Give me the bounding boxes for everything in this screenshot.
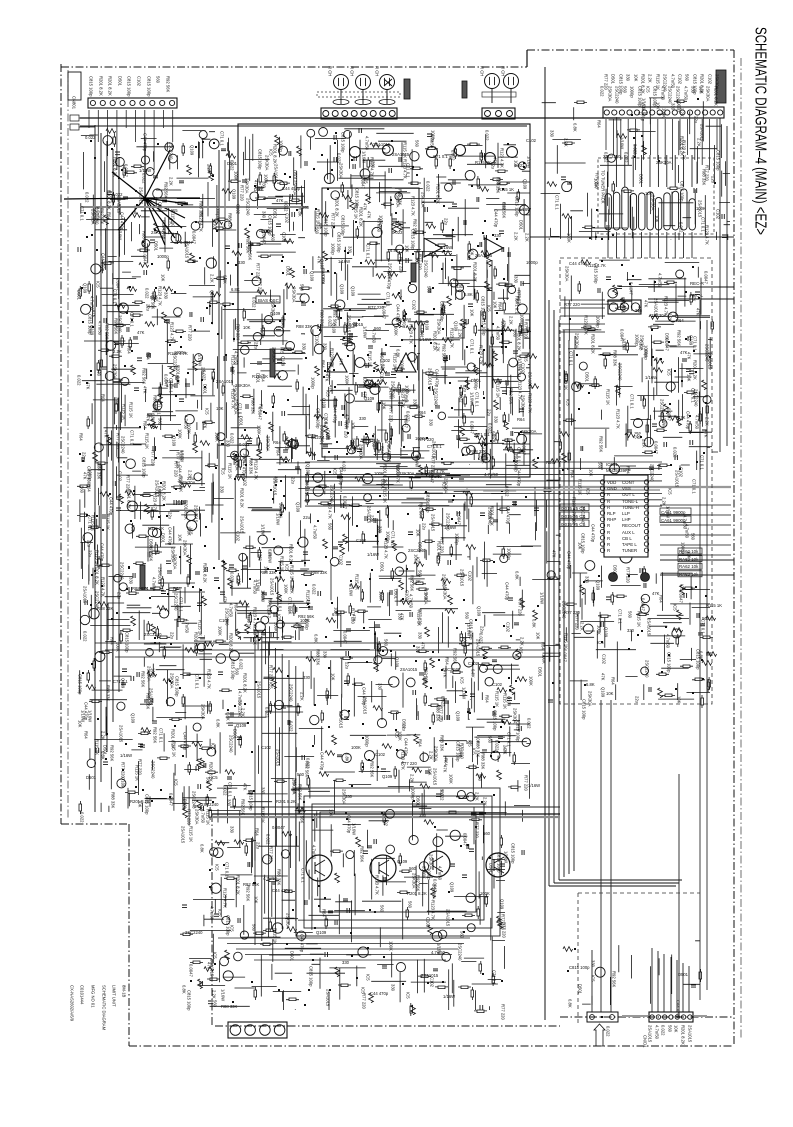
svg-text:10K: 10K	[488, 512, 493, 520]
svg-text:2.2K: 2.2K	[705, 417, 710, 426]
svg-text:1/16W: 1/16W	[352, 823, 357, 835]
svg-text:2SA1015: 2SA1015	[194, 505, 199, 523]
svg-text:2.2K: 2.2K	[662, 497, 667, 506]
svg-text:R64: R64	[541, 642, 546, 650]
svg-text:22u: 22u	[146, 304, 151, 312]
svg-text:2.2K: 2.2K	[492, 434, 497, 443]
svg-text:1/16W: 1/16W	[363, 326, 368, 338]
svg-text:R92 56K: R92 56K	[424, 667, 429, 684]
svg-text:6.8K: 6.8K	[586, 682, 595, 687]
svg-text:IC5: IC5	[668, 488, 673, 495]
svg-text:4.7u/50: 4.7u/50	[210, 906, 215, 921]
svg-text:0.022: 0.022	[239, 659, 244, 670]
svg-text:R92 56K: R92 56K	[246, 885, 251, 902]
svg-text:2.2K: 2.2K	[207, 164, 212, 173]
svg-text:D501: D501	[416, 796, 421, 807]
svg-text:R77 220: R77 220	[626, 567, 631, 584]
svg-text:R64: R64	[445, 657, 450, 665]
svg-text:2.2K: 2.2K	[241, 708, 246, 717]
svg-text:R201 8.2K: R201 8.2K	[714, 86, 719, 106]
svg-text:Q109: Q109	[596, 580, 601, 591]
svg-text:22u: 22u	[115, 397, 120, 405]
svg-text:R123 4.7K: R123 4.7K	[254, 460, 259, 480]
svg-text:R115 1K: R115 1K	[106, 514, 111, 530]
svg-text:2SC2240: 2SC2240	[95, 207, 100, 225]
svg-text:10K: 10K	[606, 691, 614, 696]
svg-text:R92 56K: R92 56K	[153, 727, 158, 744]
svg-text:1000p: 1000p	[157, 254, 169, 259]
svg-text:R201 8.2K: R201 8.2K	[289, 544, 294, 564]
svg-text:R88 33K: R88 33K	[296, 324, 313, 329]
svg-text:560: 560	[418, 570, 423, 578]
svg-text:C44 470p: C44 470p	[339, 467, 344, 486]
svg-text:R88 33K: R88 33K	[496, 177, 501, 194]
svg-text:1/16W: 1/16W	[198, 354, 203, 366]
svg-text:R123 4.7K: R123 4.7K	[199, 212, 204, 232]
svg-text:0.022: 0.022	[266, 834, 271, 845]
svg-text:330: 330	[638, 306, 643, 314]
svg-text:2SA1015: 2SA1015	[392, 152, 410, 157]
svg-text:0.022: 0.022	[606, 1026, 611, 1037]
svg-text:C44 470p: C44 470p	[109, 497, 114, 516]
svg-text:0.022: 0.022	[230, 572, 235, 583]
svg-text:560: 560	[702, 616, 710, 621]
svg-text:0.022: 0.022	[426, 181, 431, 192]
svg-text:C102: C102	[380, 372, 385, 383]
svg-text:TAPE L: TAPE L	[622, 542, 637, 547]
svg-text:560: 560	[408, 901, 413, 909]
svg-text:C102: C102	[118, 471, 123, 482]
svg-text:560: 560	[460, 931, 465, 939]
svg-text:2SA1015: 2SA1015	[688, 1025, 693, 1043]
svg-text:10K: 10K	[470, 248, 475, 256]
svg-text:2SA1015: 2SA1015	[117, 196, 122, 214]
svg-text:IC5: IC5	[285, 564, 290, 571]
svg-text:R77 220: R77 220	[524, 775, 529, 792]
svg-text:R115 1K: R115 1K	[564, 374, 569, 390]
svg-text:560: 560	[156, 76, 161, 84]
svg-text:R123 4.7K: R123 4.7K	[253, 625, 258, 645]
svg-text:R77 220: R77 220	[518, 600, 523, 617]
svg-text:R115 1K: R115 1K	[637, 611, 642, 627]
svg-text:C44 470p: C44 470p	[370, 991, 389, 996]
svg-text:100K: 100K	[389, 941, 394, 951]
svg-text:R: R	[607, 523, 610, 528]
svg-text:22u: 22u	[170, 632, 175, 640]
svg-text:6.8K: 6.8K	[151, 413, 156, 422]
svg-text:2.2K: 2.2K	[412, 579, 421, 584]
svg-text:47K: 47K	[339, 358, 344, 366]
svg-text:330: 330	[371, 161, 376, 169]
svg-text:R123 4.7K: R123 4.7K	[572, 497, 577, 517]
svg-text:C102: C102	[638, 111, 649, 116]
svg-text:Q109: Q109	[500, 899, 505, 910]
svg-text:R77 220: R77 220	[258, 278, 263, 295]
svg-text:C815 100p: C815 100p	[582, 699, 587, 720]
svg-text:R77 220: R77 220	[501, 914, 506, 931]
svg-text:IC5: IC5	[634, 432, 639, 439]
svg-text:100K: 100K	[351, 745, 361, 750]
svg-text:2.2K: 2.2K	[680, 108, 685, 117]
svg-text:10K: 10K	[677, 696, 682, 704]
svg-text:330: 330	[585, 576, 590, 584]
svg-text:2.2K: 2.2K	[697, 138, 702, 147]
svg-text:C815 100p: C815 100p	[569, 965, 590, 970]
svg-text:8M-1B: 8M-1B	[122, 985, 127, 998]
svg-text:R77 220: R77 220	[564, 302, 581, 307]
svg-text:C815 100p: C815 100p	[268, 215, 273, 236]
svg-text:Q109: Q109	[158, 202, 163, 213]
svg-text:R123 4.7K: R123 4.7K	[231, 389, 236, 409]
svg-text:C815 100p: C815 100p	[511, 843, 516, 864]
svg-text:560: 560	[427, 286, 432, 294]
svg-text:C71 0.1: C71 0.1	[630, 394, 635, 409]
svg-text:R201 8.2K: R201 8.2K	[229, 633, 234, 653]
svg-text:R92 56K: R92 56K	[166, 76, 171, 93]
svg-text:R64: R64	[570, 470, 575, 478]
svg-text:IC5: IC5	[215, 864, 220, 871]
svg-text:R77 220: R77 220	[269, 665, 274, 682]
svg-text:560: 560	[685, 74, 690, 82]
svg-text:C44 470p: C44 470p	[347, 815, 352, 834]
svg-text:IC5: IC5	[646, 86, 651, 93]
svg-text:330: 330	[671, 103, 676, 111]
svg-text:R64: R64	[273, 440, 281, 445]
svg-text:2SK30A: 2SK30A	[421, 192, 426, 208]
svg-text:330: 330	[164, 292, 169, 300]
svg-text:0.0047: 0.0047	[189, 964, 194, 977]
svg-text:330: 330	[342, 960, 350, 965]
svg-text:1000p: 1000p	[474, 378, 479, 390]
svg-text:4.7u/50: 4.7u/50	[655, 1025, 660, 1040]
svg-text:C815 100p: C815 100p	[231, 659, 236, 680]
svg-text:330: 330	[129, 577, 134, 585]
svg-text:330: 330	[456, 284, 464, 289]
svg-text:0.022: 0.022	[252, 297, 257, 308]
svg-text:D501: D501	[86, 775, 97, 780]
svg-text:R88 33K: R88 33K	[613, 350, 618, 367]
svg-text:R123 4.7K: R123 4.7K	[431, 900, 436, 920]
svg-text:0.022: 0.022	[239, 442, 250, 447]
svg-text:4.7u/50: 4.7u/50	[372, 433, 377, 448]
svg-text:2SC2240: 2SC2240	[95, 591, 100, 609]
svg-text:D501: D501	[611, 74, 616, 85]
svg-text:1/16W: 1/16W	[338, 259, 350, 264]
svg-text:2SK30A: 2SK30A	[245, 178, 250, 194]
svg-text:330: 330	[429, 419, 434, 427]
svg-text:100K: 100K	[662, 108, 667, 118]
svg-text:C815 100p: C815 100p	[145, 794, 150, 815]
svg-text:22u: 22u	[256, 842, 261, 850]
svg-text:R123 4.7K: R123 4.7K	[518, 380, 523, 400]
svg-text:C102: C102	[339, 555, 344, 566]
svg-text:R77 220: R77 220	[344, 422, 349, 439]
svg-text:0.0047: 0.0047	[665, 338, 670, 351]
svg-text:C815 100p: C815 100p	[142, 457, 147, 478]
svg-text:4.7u/50: 4.7u/50	[438, 866, 443, 881]
svg-text:4.7u/50: 4.7u/50	[428, 474, 443, 479]
svg-text:IC5: IC5	[295, 622, 300, 629]
svg-text:R201 8.2K: R201 8.2K	[236, 875, 241, 895]
svg-text:D501: D501	[154, 241, 159, 252]
svg-text:1000p: 1000p	[463, 637, 468, 649]
svg-text:R92 56K: R92 56K	[416, 875, 421, 892]
svg-text:C102: C102	[430, 977, 435, 988]
svg-text:0.0047: 0.0047	[143, 251, 148, 264]
svg-text:GND: GND	[607, 486, 617, 491]
svg-text:R123 4.7K: R123 4.7K	[479, 345, 484, 365]
svg-text:330: 330	[514, 276, 519, 284]
svg-text:2.2K: 2.2K	[290, 585, 295, 594]
svg-text:R92 56K: R92 56K	[151, 293, 156, 310]
svg-text:R64: R64	[611, 677, 616, 685]
svg-text:10K: 10K	[161, 274, 166, 282]
svg-text:R64: R64	[321, 360, 326, 368]
svg-text:R201 8.2K: R201 8.2K	[99, 76, 104, 96]
svg-text:0.0047: 0.0047	[267, 605, 272, 618]
svg-text:C815 100p: C815 100p	[187, 990, 192, 1011]
svg-text:D501: D501	[585, 372, 590, 383]
svg-text:R88 33K: R88 33K	[316, 649, 321, 666]
svg-text:10K: 10K	[254, 896, 259, 904]
svg-text:2SA1015: 2SA1015	[119, 725, 124, 743]
svg-text:C44 470p: C44 470p	[143, 133, 148, 152]
svg-text:R CH: R CH	[501, 66, 506, 76]
svg-text:0.0047: 0.0047	[124, 164, 129, 177]
svg-text:330: 330	[359, 416, 367, 421]
svg-text:0.0047: 0.0047	[192, 231, 197, 244]
svg-text:4.7u/50: 4.7u/50	[409, 594, 414, 609]
svg-text:22u: 22u	[87, 540, 92, 548]
svg-text:Q109: Q109	[382, 774, 393, 779]
svg-text:330: 330	[550, 130, 555, 138]
svg-text:C71 0.1: C71 0.1	[80, 206, 85, 221]
svg-text:Q109: Q109	[332, 323, 337, 334]
svg-text:47K: 47K	[329, 385, 334, 393]
svg-text:R115 1K: R115 1K	[475, 160, 491, 165]
svg-text:330: 330	[378, 526, 383, 534]
svg-text:2SA1015: 2SA1015	[181, 826, 186, 844]
svg-text:330: 330	[626, 74, 631, 82]
svg-text:C44 470p: C44 470p	[591, 524, 596, 543]
svg-text:10K: 10K	[334, 607, 339, 615]
svg-text:2SC2240: 2SC2240	[694, 389, 699, 407]
svg-text:R123 4.7K: R123 4.7K	[584, 315, 589, 335]
svg-text:R123 4.7K: R123 4.7K	[403, 159, 408, 179]
svg-text:D501: D501	[578, 984, 583, 995]
svg-text:2SK30A: 2SK30A	[342, 789, 347, 805]
svg-text:100K: 100K	[261, 591, 266, 601]
svg-text:C71 0.1: C71 0.1	[507, 732, 512, 747]
svg-text:2SC2240: 2SC2240	[618, 363, 623, 381]
svg-text:2SA1015: 2SA1015	[528, 372, 533, 390]
svg-text:47K: 47K	[493, 157, 498, 165]
svg-text:1/16W: 1/16W	[221, 989, 226, 1001]
svg-text:C815 100p: C815 100p	[516, 721, 521, 742]
svg-text:100K: 100K	[187, 526, 192, 536]
svg-text:2SA1015: 2SA1015	[647, 618, 652, 636]
svg-text:4.7u/50: 4.7u/50	[496, 326, 501, 341]
svg-text:IC5: IC5	[597, 640, 604, 645]
svg-text:R88 33K: R88 33K	[277, 869, 282, 886]
svg-text:0.022: 0.022	[485, 130, 490, 141]
svg-text:2SC2240: 2SC2240	[201, 802, 219, 807]
svg-text:2SK30A: 2SK30A	[235, 383, 251, 388]
svg-text:6.8K: 6.8K	[314, 634, 319, 643]
svg-text:100K: 100K	[449, 774, 454, 784]
svg-text:Q109: Q109	[121, 777, 126, 788]
svg-text:2SK30A: 2SK30A	[201, 704, 206, 720]
svg-text:2.2K: 2.2K	[188, 470, 193, 479]
svg-text:RECOUT: RECOUT	[622, 523, 641, 528]
svg-text:22u: 22u	[402, 724, 407, 732]
svg-text:R88 33K: R88 33K	[251, 398, 256, 415]
svg-text:560: 560	[213, 1000, 218, 1008]
svg-text:C815 100p: C815 100p	[716, 150, 721, 171]
svg-text:47K: 47K	[363, 391, 368, 399]
svg-text:R77 220: R77 220	[418, 254, 423, 271]
svg-text:R201 8.2K: R201 8.2K	[693, 360, 698, 380]
svg-text:R92 56K: R92 56K	[413, 219, 418, 236]
svg-text:47K: 47K	[704, 430, 709, 438]
svg-text:2SK30A: 2SK30A	[706, 86, 711, 102]
svg-text:100K: 100K	[542, 654, 547, 664]
svg-text:Q109: Q109	[232, 189, 237, 200]
svg-text:Q109: Q109	[351, 286, 356, 297]
svg-text:R64: R64	[234, 603, 239, 611]
svg-text:R92 56K: R92 56K	[142, 368, 147, 385]
svg-text:2SK30A: 2SK30A	[443, 584, 448, 600]
svg-text:C102: C102	[380, 358, 391, 363]
svg-text:10K: 10K	[687, 374, 692, 382]
svg-text:560: 560	[252, 924, 257, 932]
svg-text:4.7u/50: 4.7u/50	[684, 86, 689, 101]
svg-text:Q109: Q109	[523, 179, 528, 190]
svg-text:R115 1K: R115 1K	[417, 610, 422, 626]
svg-text:2.2K: 2.2K	[668, 313, 673, 322]
svg-text:1/16W: 1/16W	[528, 783, 540, 788]
svg-text:1/16W: 1/16W	[443, 994, 455, 999]
svg-text:R115 1K: R115 1K	[189, 826, 194, 842]
svg-text:C71 0.1: C71 0.1	[195, 674, 200, 689]
svg-text:R88 33K: R88 33K	[106, 685, 111, 702]
svg-text:C102: C102	[708, 74, 713, 85]
svg-text:2SK30A: 2SK30A	[265, 155, 270, 171]
svg-text:IC5: IC5	[269, 149, 274, 156]
svg-text:47K: 47K	[276, 198, 284, 203]
svg-text:RA62 10k: RA62 10k	[679, 564, 699, 569]
svg-text:IC601: IC601	[606, 462, 618, 467]
svg-text:2SK30A: 2SK30A	[293, 180, 298, 196]
svg-text:2SA1015: 2SA1015	[216, 379, 234, 384]
svg-text:1/16W: 1/16W	[349, 584, 354, 596]
svg-text:560: 560	[297, 772, 305, 777]
svg-text:330: 330	[413, 399, 418, 407]
svg-text:2SC2240: 2SC2240	[645, 660, 650, 678]
svg-text:Q109: Q109	[131, 713, 136, 724]
svg-text:Q109: Q109	[270, 311, 281, 316]
svg-text:4.7u/50: 4.7u/50	[661, 86, 666, 101]
svg-text:4.7u/50: 4.7u/50	[285, 436, 290, 451]
svg-text:R92 56K: R92 56K	[370, 761, 375, 778]
svg-text:R88 33K: R88 33K	[228, 213, 233, 230]
svg-text:Q109: Q109	[236, 723, 247, 728]
svg-text:R88 33K: R88 33K	[440, 735, 445, 752]
svg-text:1/16W: 1/16W	[470, 392, 475, 404]
svg-text:R201 8.2K: R201 8.2K	[680, 136, 685, 156]
svg-text:C102: C102	[426, 917, 431, 928]
svg-text:0.0047: 0.0047	[343, 631, 348, 644]
svg-text:0.022: 0.022	[495, 740, 500, 751]
svg-text:R115 1K: R115 1K	[95, 739, 100, 755]
svg-text:C44 470p: C44 470p	[505, 582, 510, 601]
svg-text:MFG NO 01: MFG NO 01	[91, 985, 96, 1008]
svg-text:R201 8.2K: R201 8.2K	[113, 157, 118, 177]
svg-text:R123 4.7K: R123 4.7K	[153, 492, 158, 512]
svg-text:R123 4.7K: R123 4.7K	[330, 348, 335, 368]
svg-text:47K: 47K	[692, 294, 697, 302]
svg-text:C71 0.1: C71 0.1	[113, 289, 118, 304]
svg-text:560: 560	[384, 639, 389, 647]
svg-text:1000p: 1000p	[507, 548, 512, 560]
svg-text:IC5: IC5	[463, 319, 468, 326]
svg-text:47K: 47K	[367, 211, 372, 219]
svg-text:47K: 47K	[104, 430, 109, 438]
svg-text:0.0047: 0.0047	[679, 590, 684, 603]
svg-text:R201 8.2K: R201 8.2K	[162, 481, 167, 501]
svg-text:330: 330	[261, 787, 266, 795]
svg-text:R64: R64	[380, 446, 385, 454]
svg-text:IC5: IC5	[395, 731, 400, 738]
svg-text:4.7u/50: 4.7u/50	[666, 634, 671, 649]
svg-text:2.2K: 2.2K	[101, 731, 106, 740]
svg-text:100K: 100K	[284, 584, 289, 594]
svg-text:C44 470p: C44 470p	[183, 732, 188, 751]
svg-text:560: 560	[628, 611, 633, 619]
svg-text:RLP: RLP	[607, 511, 616, 516]
svg-text:C71 0.1: C71 0.1	[701, 619, 706, 634]
svg-text:R CH: R CH	[375, 66, 380, 76]
svg-text:C102: C102	[468, 661, 479, 666]
svg-text:C102: C102	[679, 467, 684, 478]
svg-text:2SA1015: 2SA1015	[446, 909, 451, 927]
svg-text:100K: 100K	[218, 626, 223, 636]
svg-text:1/16W: 1/16W	[437, 943, 442, 955]
svg-text:R64: R64	[84, 731, 89, 739]
svg-text:0.022: 0.022	[527, 718, 532, 729]
svg-text:R64: R64	[676, 318, 684, 323]
svg-text:R201 8.2K: R201 8.2K	[95, 565, 100, 585]
svg-text:1000p: 1000p	[514, 460, 519, 472]
svg-text:2SK30A: 2SK30A	[656, 160, 672, 165]
svg-text:100K: 100K	[274, 622, 279, 632]
svg-text:47K: 47K	[143, 386, 148, 394]
svg-text:C102: C102	[602, 654, 607, 665]
svg-text:Q109: Q109	[316, 930, 327, 935]
svg-text:R77 220: R77 220	[351, 608, 356, 625]
svg-text:R92 56K: R92 56K	[110, 745, 115, 762]
svg-text:C102: C102	[526, 138, 537, 143]
svg-text:47K: 47K	[86, 382, 91, 390]
svg-text:2.2K: 2.2K	[642, 439, 647, 448]
svg-text:10K: 10K	[578, 542, 583, 550]
svg-text:C71 0.1: C71 0.1	[569, 351, 574, 366]
svg-text:2SC2240: 2SC2240	[169, 142, 174, 160]
svg-text:R77 220: R77 220	[116, 433, 121, 450]
svg-text:C44 470p: C44 470p	[101, 253, 106, 272]
svg-text:10K: 10K	[699, 86, 704, 94]
svg-text:2SC2240: 2SC2240	[668, 86, 673, 104]
